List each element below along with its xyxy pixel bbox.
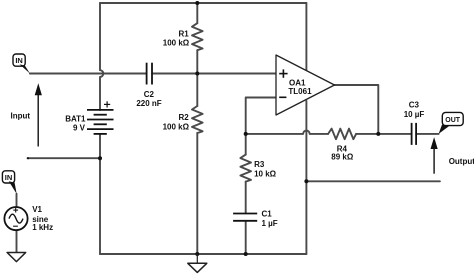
svg-text:1 µF: 1 µF xyxy=(262,219,278,228)
svg-text:10 kΩ: 10 kΩ xyxy=(254,170,277,179)
svg-text:OUT: OUT xyxy=(445,117,461,124)
svg-text:C3: C3 xyxy=(409,101,420,110)
svg-text:10 µF: 10 µF xyxy=(404,110,425,119)
svg-text:IN: IN xyxy=(15,56,23,65)
svg-text:100 kΩ: 100 kΩ xyxy=(163,122,190,131)
svg-text:BAT1: BAT1 xyxy=(65,115,86,124)
svg-text:9 V: 9 V xyxy=(73,124,86,133)
svg-text:89 kΩ: 89 kΩ xyxy=(331,153,354,162)
svg-text:C2: C2 xyxy=(144,90,155,99)
svg-text:TL061: TL061 xyxy=(288,87,312,96)
svg-text:C1: C1 xyxy=(262,210,273,219)
svg-text:R1: R1 xyxy=(178,30,189,39)
svg-text:V1: V1 xyxy=(32,205,42,214)
svg-text:Output: Output xyxy=(449,157,474,166)
svg-text:R2: R2 xyxy=(178,113,189,122)
svg-text:100 kΩ: 100 kΩ xyxy=(163,38,190,47)
svg-text:220 nF: 220 nF xyxy=(136,99,161,108)
svg-text:R3: R3 xyxy=(254,160,265,169)
svg-text:1 kHz: 1 kHz xyxy=(32,223,53,232)
svg-text:Input: Input xyxy=(11,112,31,121)
svg-text:IN: IN xyxy=(5,173,13,182)
